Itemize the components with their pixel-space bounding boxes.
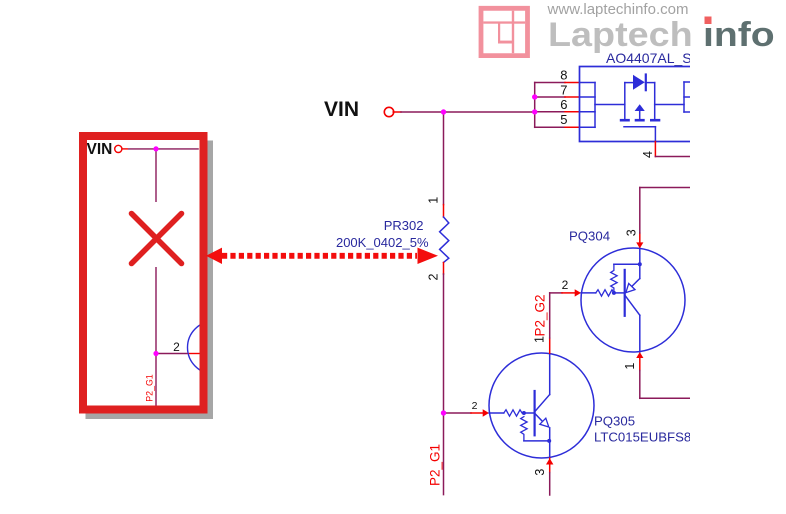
PQ305 base lead inside xyxy=(489,412,504,414)
PQ304 internal series resistor xyxy=(596,290,614,296)
PQ305 pin1 stub xyxy=(549,338,551,353)
PQ305 base wire to bar xyxy=(524,412,535,414)
arrowhead PQ305 pin2 xyxy=(483,409,489,416)
wire pin6 xyxy=(535,111,565,113)
PQ305 emitter junction dot xyxy=(547,439,551,443)
svg-text:ınfo: ınfo xyxy=(703,15,775,53)
svg-text:200K_0402_5%: 200K_0402_5% xyxy=(336,235,429,250)
svg-text:VIN: VIN xyxy=(87,141,113,158)
svg-text:1: 1 xyxy=(427,197,441,204)
pin stub 7 xyxy=(565,96,580,98)
pin 2 stub of PR302 xyxy=(443,263,445,275)
PQ304 pin3 stub xyxy=(639,233,641,243)
PQ304 emitter junction dot xyxy=(638,262,642,266)
pin stub PQ304 pin2 xyxy=(562,292,576,294)
svg-text:5: 5 xyxy=(560,112,567,127)
transistor PQ304 circle xyxy=(581,248,685,352)
wire pin4 to right xyxy=(655,156,690,158)
arrowhead PQ304 pin2 xyxy=(575,289,581,296)
wire PQ305 pin3 down xyxy=(549,473,551,495)
svg-text:Laptech: Laptech xyxy=(548,15,693,54)
wire pin8 xyxy=(535,82,565,84)
arrow dashed shaft xyxy=(222,253,417,259)
PQ304 pin3 arrowhead xyxy=(636,242,643,248)
callout red border xyxy=(79,132,208,414)
PQ304 emitter diagonal xyxy=(632,279,640,287)
PQ305 emitter arrow (open) xyxy=(540,418,549,427)
svg-text:2: 2 xyxy=(472,400,478,412)
svg-text:3: 3 xyxy=(625,229,639,236)
wire PQ304 bottom horizontal xyxy=(640,397,690,399)
PQ305 base bar xyxy=(533,391,535,435)
pin stub PQ305 pin2 xyxy=(471,412,484,414)
pin 1 stub of PR302 xyxy=(443,205,445,217)
PQ305 pin3 arrowhead xyxy=(546,458,553,464)
callout wire vertical lower xyxy=(155,267,157,407)
wire PQ304 pin3 up xyxy=(639,188,641,234)
wire P2_G1 down xyxy=(443,413,445,495)
PQ305 internal BE resistor xyxy=(521,417,527,441)
callout wire branch right xyxy=(156,353,187,355)
PQ304 top wire to BE resistor xyxy=(614,263,640,265)
callout junction bottom xyxy=(153,351,158,356)
callout pin stub red xyxy=(187,353,200,355)
mosfet channel bar right xyxy=(650,119,660,122)
PQ304 base wire to bar xyxy=(614,292,625,294)
wire pin5 xyxy=(535,126,565,128)
callout wire horizontal xyxy=(128,148,199,150)
wire mosfet drain to right pins xyxy=(655,104,684,106)
wire pin7 xyxy=(535,96,565,98)
PQ304 base lead inside xyxy=(581,292,596,294)
mosfet U AO4407AL_SO8 body box xyxy=(580,67,696,142)
svg-text:LTC015EUBFS8T: LTC015EUBFS8T xyxy=(594,430,699,445)
mosfet gate line xyxy=(624,126,655,128)
wire pinbox to mosfet source xyxy=(595,104,625,106)
wire PQ304 pin1 down xyxy=(639,371,641,399)
wire VIN horizontal xyxy=(401,111,535,113)
svg-text:7: 7 xyxy=(560,82,567,97)
callout stub xyxy=(122,148,128,150)
junction P2_G1 node xyxy=(441,410,446,415)
svg-text:P2_G1: P2_G1 xyxy=(145,374,155,401)
mosfet left vertical xyxy=(624,83,626,119)
mosfet channel bar left xyxy=(620,119,630,122)
terminal circle VIN xyxy=(384,107,393,116)
pin cell box right xyxy=(684,82,690,112)
callout white fill xyxy=(79,132,208,414)
pin stub at VIN terminal xyxy=(393,111,401,113)
wire corner to PQ304 pin2 xyxy=(550,292,562,294)
PQ304 collector diagonal xyxy=(625,296,640,315)
svg-text:8: 8 xyxy=(560,68,567,83)
wire PQ304 top horizontal xyxy=(640,187,690,189)
svg-text:2: 2 xyxy=(562,278,569,292)
svg-text:P2_G1: P2_G1 xyxy=(428,444,443,486)
svg-text:PQ304: PQ304 xyxy=(569,229,610,244)
wire VIN down to PR302 pin1 xyxy=(443,112,445,205)
PQ305 emitter-resistor bottom wire xyxy=(524,440,550,442)
svg-text:1: 1 xyxy=(623,363,637,370)
svg-text:2: 2 xyxy=(173,340,180,354)
wire PR302 pin2 down xyxy=(443,274,445,413)
PQ304 pin1 arrowhead xyxy=(636,352,643,358)
callout wire vertical upper xyxy=(155,149,157,202)
PQ305 emitter vertical xyxy=(549,428,551,441)
mosfet top wire right xyxy=(646,82,655,84)
mosfet top wire left xyxy=(625,82,633,84)
svg-text:PQ305: PQ305 xyxy=(594,414,635,429)
PQ304 base junction dot xyxy=(612,291,616,295)
svg-text:2: 2 xyxy=(427,273,441,280)
body diode cathode bar xyxy=(645,75,647,91)
junction pin6 xyxy=(532,109,537,114)
svg-text:PR302: PR302 xyxy=(384,218,424,233)
svg-text:P2_G2: P2_G2 xyxy=(532,294,547,336)
wire junction to PQ305 base xyxy=(444,412,472,414)
arrowhead left xyxy=(206,248,222,264)
PQ305 base junction dot xyxy=(522,411,526,415)
logo i dot red xyxy=(705,17,712,25)
junction VIN/PR302 xyxy=(441,109,446,114)
PQ305 pin3 stub xyxy=(549,458,551,472)
pin stub 8 xyxy=(565,82,580,84)
body diode triangle xyxy=(633,75,645,90)
PQ304 pin3 line inside xyxy=(639,248,641,264)
svg-text:4: 4 xyxy=(641,151,655,158)
svg-text:VIN: VIN xyxy=(324,98,359,121)
callout junction top xyxy=(153,146,158,151)
mosfet right vertical xyxy=(654,83,656,119)
pin stub 4 xyxy=(654,142,656,157)
pin stub 5 xyxy=(565,126,580,128)
svg-text:3: 3 xyxy=(533,469,547,476)
logo mark square xyxy=(479,6,530,58)
PQ305 emitter diagonal xyxy=(535,414,543,423)
PQ305 internal series resistor xyxy=(504,410,524,416)
resistor PR302 zigzag xyxy=(440,217,449,263)
mosfet body arrow xyxy=(635,104,645,111)
wire PQ305 pin1 up xyxy=(549,293,551,338)
PQ304 emitter arrow (open) xyxy=(626,284,635,293)
pin stub 6 xyxy=(565,111,580,113)
callout transistor arc xyxy=(188,321,241,374)
svg-text:6: 6 xyxy=(560,97,567,112)
wire bracket vertical (pins 5-8) xyxy=(534,83,536,128)
arrowhead right xyxy=(418,248,439,264)
mosfet channel bar mid xyxy=(635,119,645,122)
callout terminal circle xyxy=(115,145,122,152)
transistor PQ305 circle xyxy=(489,353,594,458)
mosfet body arrow stem xyxy=(639,111,641,119)
pin cell box left xyxy=(580,83,596,128)
callout X mark xyxy=(132,214,182,264)
PQ305 collector diagonal xyxy=(535,395,550,412)
callout shadow xyxy=(86,141,214,420)
PQ304 collector vertical xyxy=(639,315,641,352)
PQ304 pin1 stub xyxy=(639,356,641,371)
mosfet gate drop xyxy=(654,127,656,142)
PQ305 collector vertical xyxy=(549,353,551,394)
junction pin7 xyxy=(532,94,537,99)
PQ305 emitter to circle bottom xyxy=(549,441,551,458)
PQ304 emitter vertical xyxy=(639,264,641,278)
PQ304 base bar xyxy=(624,270,626,316)
PQ304 internal BE resistor xyxy=(611,264,617,293)
